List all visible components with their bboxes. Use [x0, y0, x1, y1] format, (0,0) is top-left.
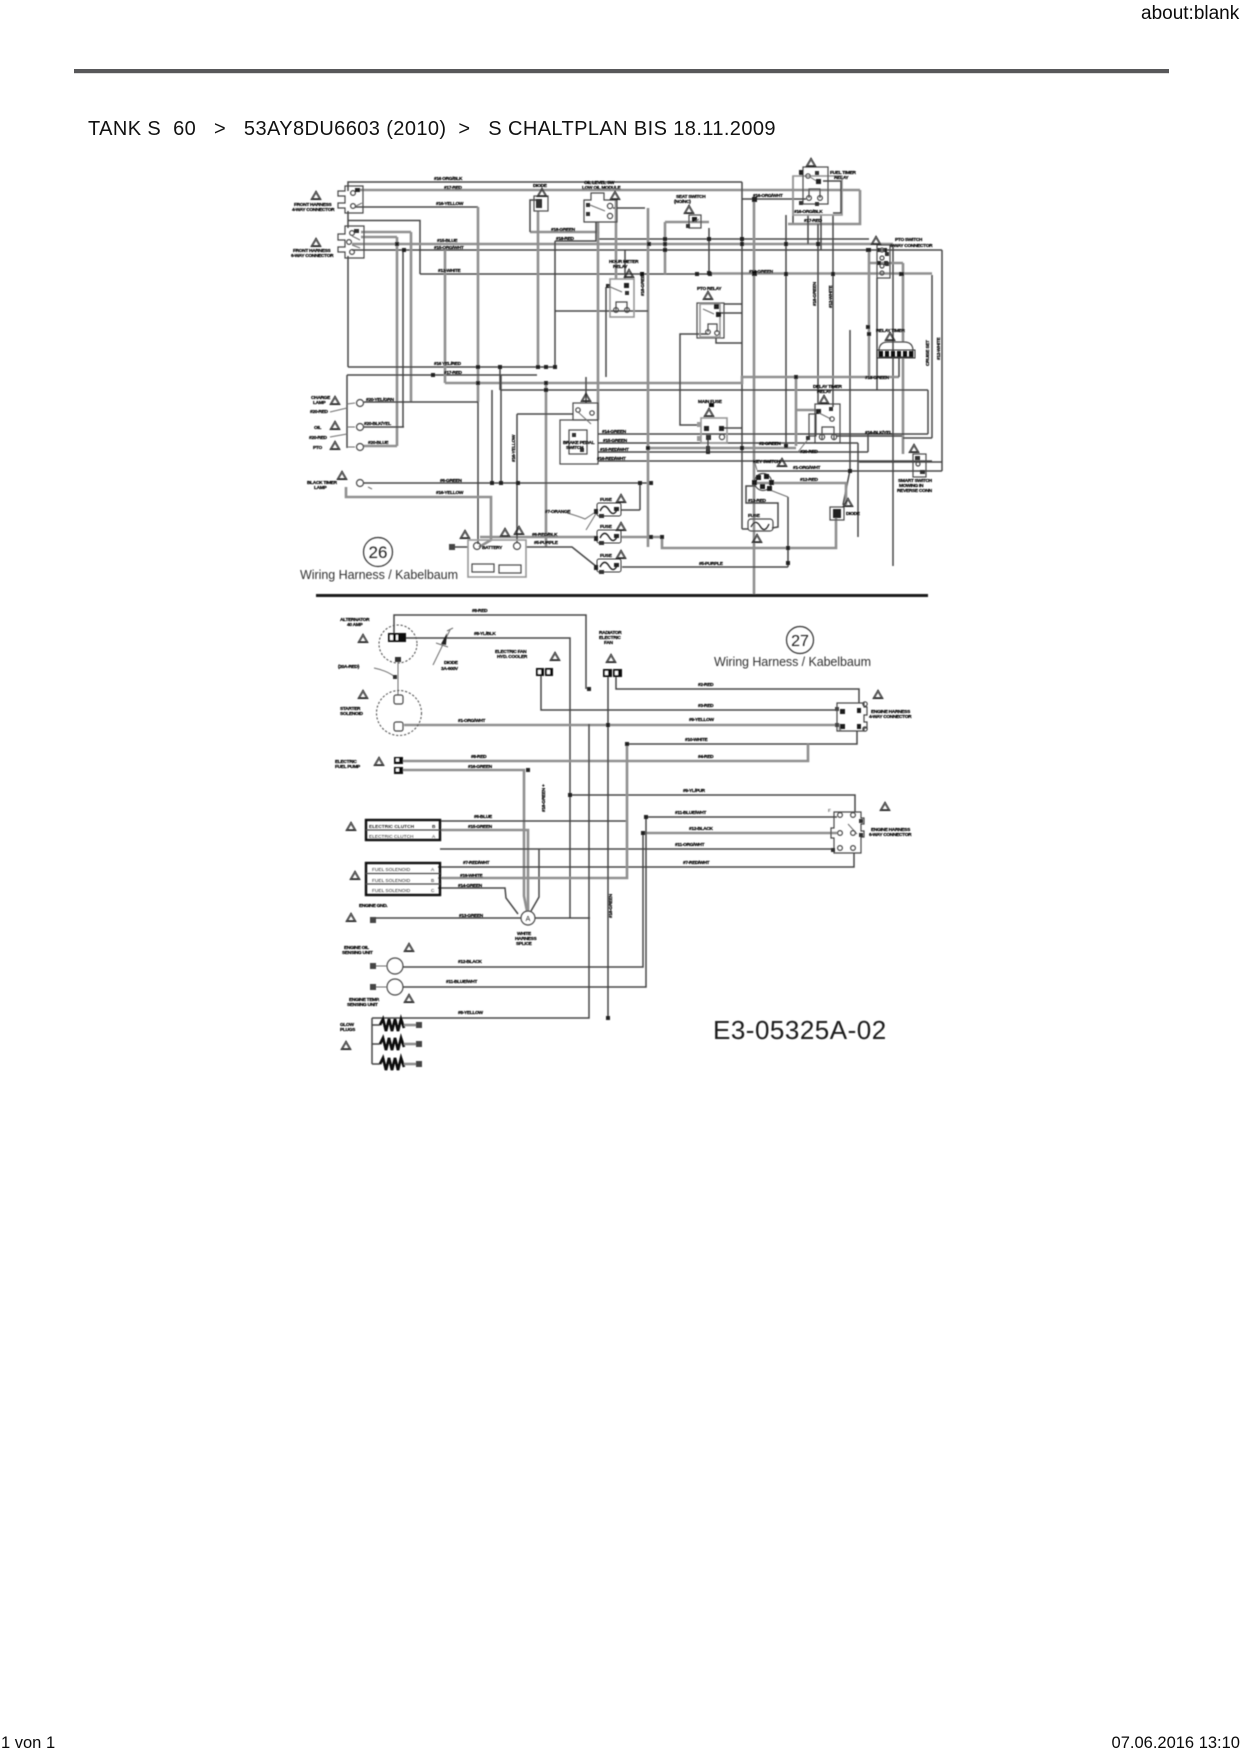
svg-text:#11-ORG/WHT: #11-ORG/WHT [675, 842, 705, 848]
triangle W13 [330, 441, 340, 450]
wire seat sw right [598, 238, 869, 240]
svg-text:KEY SWITCH: KEY SWITCH [753, 459, 781, 465]
triangle W5 [806, 158, 816, 167]
wire radiator fan drop [607, 675, 609, 1018]
wire #16-YELLOW [355, 206, 478, 208]
svg-text:#1-ORG/WHT: #1-ORG/WHT [458, 718, 485, 724]
triangle W11 [330, 396, 340, 405]
wire #17-RED mid [347, 374, 537, 376]
triangle W9 [703, 291, 713, 300]
svg-text:40 AMP: 40 AMP [347, 622, 363, 628]
svg-text:FUEL SOLENOID: FUEL SOLENOID [372, 888, 411, 894]
pto lamp L3 [357, 444, 364, 451]
triangle W19 [514, 526, 524, 535]
wire battery stub [453, 546, 468, 548]
svg-text:#11-BLUE/WHT: #11-BLUE/WHT [675, 810, 706, 816]
svg-text:#13-RED: #13-RED [748, 498, 766, 504]
svg-text:E3-05325A-02: E3-05325A-02 [713, 1015, 887, 1045]
wire riser x445 gray [444, 250, 447, 383]
fuse F3 [594, 559, 621, 574]
svg-text:LAMP: LAMP [313, 400, 326, 406]
junction dots [395, 197, 904, 565]
svg-text:#20-RED: #20-RED [800, 449, 818, 455]
wire #18-GREEN diode [530, 222, 598, 232]
triangle W22 [616, 550, 626, 559]
fuse F1 [594, 503, 621, 518]
alternator G1 [379, 625, 417, 695]
wire diode drop [537, 211, 540, 367]
svg-text:#14-GREEN: #14-GREEN [458, 883, 483, 889]
wire dark mid bus [500, 389, 928, 391]
svg-text:FUSE: FUSE [600, 524, 613, 530]
svg-text:8-WAY CONNECTOR: 8-WAY CONNECTOR [890, 243, 933, 249]
svg-text:27: 27 [791, 633, 809, 650]
black timer lamp L4 [357, 480, 364, 487]
wire splice feed x539 [531, 849, 539, 911]
wire #1-ORG/WHT + #9-YELLOW [404, 725, 840, 731]
lamp stubs [330, 403, 355, 447]
wire riser x786 [785, 215, 787, 446]
svg-text:#15-GREEN: #15-GREEN [468, 824, 493, 830]
svg-text:#1-ORG/WHT: #1-ORG/WHT [793, 465, 820, 471]
svg-text:OIL: OIL [314, 425, 321, 431]
svg-text:FUEL PUMP: FUEL PUMP [335, 764, 361, 770]
svg-text:#9-YL/PUR: #9-YL/PUR [683, 788, 706, 794]
wire #8-RED / #4-RED fuel pump [403, 744, 808, 761]
svg-text:B: B [431, 878, 434, 884]
hour meter M1 [606, 279, 634, 317]
wire conn2 row1 [361, 231, 411, 234]
svg-text:B: B [432, 824, 436, 830]
svg-text:FAN: FAN [604, 640, 614, 646]
wire fuel timer relay left [742, 198, 806, 200]
svg-text:DIODE: DIODE [533, 183, 548, 189]
svg-text:PTO SWITCH: PTO SWITCH [895, 237, 923, 243]
triangle W12 [330, 421, 340, 430]
svg-text:#16-YELLOW: #16-YELLOW [436, 201, 464, 207]
triangle W3 [537, 188, 547, 197]
circle 26 [364, 538, 393, 567]
vertical riser A [396, 237, 399, 446]
svg-text:FUSE: FUSE [748, 513, 761, 519]
svg-text:RELAY: RELAY [613, 264, 628, 270]
svg-text:#15-BLUE: #15-BLUE [437, 238, 458, 244]
triangle W25 [843, 498, 853, 507]
fuel timer relay K1 [793, 167, 842, 215]
wire seat switch link [665, 221, 709, 224]
wire diode to bus [530, 200, 541, 232]
wire x833 extend [832, 215, 834, 284]
connector J2 front harness 6-way [338, 226, 364, 258]
svg-text:SWITCH: SWITCH [566, 445, 584, 451]
wire riser x518 gray [516, 414, 518, 542]
triangle W33 [346, 913, 356, 922]
circle 27 [787, 627, 814, 654]
svg-text:#5-PURPLE: #5-PURPLE [534, 540, 559, 546]
svg-text:#9-YELLOW: #9-YELLOW [689, 717, 715, 723]
wire dome drop gray [902, 358, 905, 454]
wire #7-RED/WHT [438, 853, 854, 867]
seat switch S2 [686, 215, 701, 228]
svg-text:RELAY: RELAY [834, 175, 849, 181]
triangle W31 [346, 822, 356, 831]
wire #16-BLK/YEL [836, 435, 902, 437]
svg-text:#18-GREEN: #18-GREEN [749, 269, 774, 275]
wire right loop top [927, 390, 929, 434]
svg-text:#12-RED: #12-RED [800, 477, 818, 483]
triangle W21 [616, 522, 626, 531]
engine harness 4-way connector J7 [835, 702, 867, 731]
svg-text:#20-YEL/GRN: #20-YEL/GRN [366, 397, 394, 403]
svg-text:#18-GREEN: #18-GREEN [608, 893, 614, 918]
smart switch connector J4 [913, 454, 926, 477]
wire #8-YL/BLK [405, 638, 570, 795]
wire seat sw riser left [664, 222, 667, 274]
triangle W34 [404, 943, 414, 952]
svg-text:#18-GREEN +: #18-GREEN + [541, 784, 547, 812]
triangle W36 [341, 1041, 351, 1050]
wire hour meter feed 2 [624, 250, 626, 279]
triangle W17 [460, 530, 470, 539]
wire #12-WHITE bus [420, 273, 710, 275]
svg-text:ELECTRIC CLUTCH: ELECTRIC CLUTCH [369, 834, 414, 840]
fuel solenoid SV1 [366, 863, 440, 895]
svg-text:BATTERY: BATTERY [482, 545, 503, 551]
triangle W18 [500, 528, 510, 537]
svg-text:#15-ORG/WHT: #15-ORG/WHT [434, 245, 464, 251]
triangle W27 [337, 471, 347, 480]
brake wire 3 [598, 451, 868, 453]
triangle W2 [311, 238, 321, 247]
wire diode2 down-left gray [662, 518, 836, 548]
wire hour meter bottom [555, 310, 648, 312]
wire #17-RED relay [788, 190, 860, 224]
triangle W15 [819, 395, 829, 404]
wire right loop [903, 437, 932, 439]
wire hour meter feeds [615, 199, 618, 279]
svg-text:LAMP: LAMP [314, 485, 327, 491]
wire pto relay feeds [721, 304, 742, 313]
svg-text:#2-GREEN: #2-GREEN [759, 441, 781, 447]
triangle W37 [606, 654, 616, 663]
svg-text:#8-YL/BLK: #8-YL/BLK [474, 631, 496, 637]
wire 20A-RED diag [374, 668, 395, 677]
wire #2-RED [616, 675, 859, 703]
svg-text:#18-GREEN: #18-GREEN [812, 281, 818, 306]
triangle W23 [777, 458, 787, 467]
wire riser x833 [832, 284, 834, 407]
svg-text:DIODE: DIODE [444, 660, 459, 666]
wire #12-RED [754, 483, 846, 505]
electric clutch CL1 [366, 820, 440, 840]
svg-text:#4-RED: #4-RED [698, 754, 714, 760]
wire ign to fuse [746, 486, 778, 528]
starter solenoid M2 [377, 691, 422, 736]
svg-text:4-WAY CONNECTOR: 4-WAY CONNECTOR [869, 714, 912, 720]
wire #1-ORG/WHT [757, 470, 942, 472]
svg-text:DIODE: DIODE [846, 511, 861, 517]
svg-text:HYD. COOLER: HYD. COOLER [497, 654, 528, 660]
wire riser x478 lower [477, 402, 479, 544]
svg-text:LOW OIL MODULE: LOW OIL MODULE [582, 185, 621, 191]
svg-text:RELAY TIMER: RELAY TIMER [876, 328, 906, 334]
svg-text:#10-WHITE: #10-WHITE [685, 737, 708, 743]
wire #3-RED [541, 675, 837, 710]
glow plug R3 terminal [404, 1061, 422, 1067]
wire #17-RED top [355, 189, 860, 192]
triangle W1 [311, 191, 321, 200]
svg-text:1 von 1: 1 von 1 [1, 1734, 55, 1752]
engine ground GND [370, 917, 376, 923]
lamp L4 stub [368, 487, 372, 489]
wire splice riser x571 [569, 795, 571, 918]
triangle W4 [610, 191, 620, 200]
engine temp sensing unit U2 [370, 979, 403, 995]
wire right loop bottom [859, 461, 942, 463]
electric fuel pump P1 [394, 757, 403, 774]
triangle W20 [616, 494, 626, 503]
svg-text:#17-RED: #17-RED [804, 218, 822, 224]
wire corner x500 [499, 367, 501, 390]
wire key sw diagonal [770, 490, 788, 497]
svg-text:TANK S 60 > 53AY8DU6603 (: TANK S 60 > 53AY8DU6603 (2010) > S CHALT… [88, 118, 776, 140]
wire #16-ORG/BLK relay [792, 176, 794, 224]
oil lamp L2 [357, 424, 364, 431]
svg-text:F: F [828, 808, 831, 814]
triangle W28 [358, 634, 368, 643]
lamp3 wire [363, 445, 397, 448]
svg-text:#18-GREEN: #18-GREEN [551, 227, 576, 233]
svg-text:PLUGS: PLUGS [340, 1027, 356, 1033]
wire relay drop 1 [741, 182, 743, 529]
svg-text:07.06.2016 13:10: 07.06.2016 13:10 [1112, 1734, 1240, 1752]
svg-text:#16-ORG/WHT: #16-ORG/WHT [753, 193, 783, 199]
svg-text:#6-RED/BLK: #6-RED/BLK [532, 532, 558, 538]
svg-text:#15-RED/WHT: #15-RED/WHT [600, 447, 629, 453]
triangle W10 [885, 332, 895, 341]
wire riser x850 [843, 330, 850, 505]
svg-text:MAIN FUSE: MAIN FUSE [698, 399, 723, 405]
svg-text:#19-WHITE: #19-WHITE [460, 873, 483, 879]
wire oil switch drop x586 [585, 377, 587, 403]
brake wire 2 [598, 442, 858, 444]
svg-text:3A-600V: 3A-600V [441, 666, 459, 672]
wire #13-GREEN [375, 917, 521, 919]
diode D2 [830, 507, 844, 520]
glow plug R3 [380, 1058, 404, 1070]
diode D3 symbol [433, 628, 453, 665]
oil pressure switch S1 [584, 193, 617, 222]
connector J1 front harness 4-way [338, 186, 363, 213]
svg-text:#17-RED: #17-RED [444, 185, 462, 191]
svg-text:#8-RED: #8-RED [472, 608, 488, 614]
svg-text:Wiring Harness / Kabelbaum: Wiring Harness / Kabelbaum [300, 568, 458, 582]
svg-text:#16-BLK/YEL: #16-BLK/YEL [865, 430, 892, 436]
svg-text:#12-WHITE: #12-WHITE [828, 285, 834, 308]
svg-text:#16 ORG/BLK: #16 ORG/BLK [434, 176, 463, 182]
triangle W39 [873, 690, 883, 699]
svg-text:#20-BLUE: #20-BLUE [368, 440, 389, 446]
wire conn1 bottom loop [348, 211, 420, 274]
wire #6-BLUE [440, 820, 627, 822]
wire #12-BLACK sensor [403, 833, 643, 967]
wire #5-PURPLE diag [526, 547, 597, 567]
wire riser x645 [647, 208, 650, 547]
svg-text:FUEL SOLENOID: FUEL SOLENOID [372, 878, 411, 884]
glow plug R1 [380, 1019, 404, 1031]
wire x788 riser [787, 497, 789, 567]
wire fuse1 right [621, 509, 640, 511]
triangle W14 [704, 408, 714, 417]
wire #16-YELLOW battery [346, 487, 491, 547]
triangle W26 [909, 444, 919, 453]
svg-text:REVERSE CONN: REVERSE CONN [897, 488, 933, 494]
svg-text:#7-RED/WHT: #7-RED/WHT [463, 860, 490, 866]
wire riser x546 gray [545, 383, 548, 547]
wire oil module drop [613, 207, 645, 209]
svg-text:#12-WHITE: #12-WHITE [438, 268, 461, 274]
svg-text:#11-BLUE/WHT: #11-BLUE/WHT [446, 979, 477, 985]
lamp bus left [346, 375, 348, 448]
wire riser x869 [868, 250, 871, 377]
svg-text:#20-RED: #20-RED [310, 409, 328, 415]
svg-text:#18-GREEN: #18-GREEN [640, 271, 646, 296]
svg-text:#12-WHITE: #12-WHITE [936, 337, 942, 360]
wire brake sw left [517, 413, 573, 415]
svg-text:#14-GREEN: #14-GREEN [602, 429, 627, 435]
svg-text:#6-GREEN: #6-GREEN [440, 478, 462, 484]
pto switch connector J3 [877, 245, 890, 278]
wire #15-ORG/WHT bus [352, 249, 942, 251]
delay timer relay K4 [809, 404, 840, 443]
svg-text:PTO RELAY: PTO RELAY [697, 286, 722, 292]
main fuse F0 [697, 403, 742, 452]
svg-text:ELECTRIC CLUTCH: ELECTRIC CLUTCH [369, 824, 415, 830]
svg-text:26: 26 [369, 543, 388, 562]
wire #12-BLACK connector [643, 832, 837, 835]
wire riser x796 gray [796, 377, 816, 446]
separator line [316, 594, 928, 597]
glow plug R2 terminal [404, 1041, 422, 1047]
wire #18-RED [555, 222, 596, 367]
svg-text:#13-GREEN: #13-GREEN [459, 913, 484, 919]
svg-text:4-WAY CONNECTOR: 4-WAY CONNECTOR [292, 207, 335, 213]
wire riser x501 [500, 375, 502, 483]
svg-text:C: C [431, 888, 435, 894]
wire #18-GREEN relay timer [898, 357, 900, 377]
svg-text:#18-RED: #18-RED [556, 236, 574, 242]
wire conn2 row2 [361, 236, 397, 239]
wire #8-RED alternator top [394, 615, 586, 689]
wire pto conn gray out [869, 262, 903, 265]
brake wire 4 [598, 460, 932, 462]
wire riser x902 [902, 263, 905, 342]
svg-text:#16-ORG/BLK: #16-ORG/BLK [794, 209, 823, 215]
triangle W30 [374, 757, 384, 766]
wire conn2 bottom drop [347, 256, 349, 367]
junction dots d2 [526, 687, 648, 1020]
wire riser x935 [931, 275, 933, 438]
header rule [74, 69, 1169, 73]
wire riser x598 gray [597, 232, 600, 420]
lamp2 wire [363, 426, 404, 428]
svg-text:#3-RED: #3-RED [698, 703, 714, 709]
triangle W8 [624, 269, 634, 278]
triangle W38 [550, 652, 560, 661]
triangle W7 [871, 236, 881, 245]
wire x868 drop [867, 434, 869, 452]
diode D1 [534, 196, 548, 211]
glow plugs bus [372, 1018, 380, 1064]
wire main fuse left [680, 334, 708, 425]
svg-text:6-WAY CONNECTOR: 6-WAY CONNECTOR [869, 832, 912, 838]
svg-text:FUSE: FUSE [600, 497, 613, 503]
svg-text:A: A [526, 916, 531, 923]
engine harness 6-way connector J8 [828, 808, 864, 853]
svg-text:#16-YELLOW: #16-YELLOW [511, 434, 517, 462]
svg-text:CRUISE SET: CRUISE SET [925, 340, 931, 366]
svg-text:#7-ORANGE: #7-ORANGE [545, 509, 571, 515]
wire x858 drop [857, 443, 859, 537]
wire pto relay bottom [716, 336, 742, 343]
wire #11-ORG/WHT [440, 848, 832, 850]
svg-text:#16 YEL/RED: #16 YEL/RED [434, 361, 462, 367]
wire #19-WHITE [438, 744, 627, 878]
wire #11-BLUE/WHT connector [646, 816, 837, 818]
lamp1 wire [364, 401, 478, 403]
svg-text:SENSING UNIT: SENSING UNIT [342, 950, 373, 956]
svg-text:Wiring Harness / Kabelbaum: Wiring Harness / Kabelbaum [714, 655, 871, 669]
svg-text:#15-GREEN: #15-GREEN [603, 438, 628, 444]
wire bus #16 ORG/BLK top [348, 182, 742, 191]
svg-text:#20-RED: #20-RED [309, 435, 327, 441]
glow plug R2 [380, 1038, 404, 1050]
wire #20-RED diagonal [798, 438, 809, 452]
vertical riser B [402, 250, 404, 427]
wire connector drop x880 [876, 278, 878, 390]
svg-text:#16-YELLOW: #16-YELLOW [436, 490, 464, 496]
hyd cooler fan connector J6 [536, 668, 553, 676]
wire #10-WHITE [627, 731, 857, 744]
vertical riser D gray [477, 207, 480, 402]
svg-text:#5-PURPLE: #5-PURPLE [699, 561, 724, 567]
triangle W16 [581, 393, 591, 402]
svg-text:#18-GREEN: #18-GREEN [865, 375, 890, 381]
wire #7-ORANGE diag [567, 511, 597, 530]
svg-text:#16-RED/WHT: #16-RED/WHT [597, 456, 626, 462]
svg-text:6-WAY CONNECTOR: 6-WAY CONNECTOR [291, 253, 334, 259]
triangle W35 [404, 994, 414, 1003]
wire #9-YL/PUR [570, 795, 855, 812]
wire riser x943 [941, 250, 943, 471]
svg-text:(NO/NC): (NO/NC) [674, 199, 691, 205]
wire fuse3 to x788 [622, 566, 788, 568]
wire fuel relay pin drops [808, 215, 821, 250]
wire bus 274 east gray [709, 272, 932, 275]
triangle W6 [684, 205, 694, 214]
charge lamp L1 [357, 400, 364, 407]
svg-text:FUEL SOLENOID: FUEL SOLENOID [372, 867, 411, 873]
svg-text:#20-BLK/YEL: #20-BLK/YEL [364, 421, 391, 427]
svg-text:SENSING UNIT: SENSING UNIT [347, 1002, 378, 1008]
ignition switch S4 [752, 460, 774, 491]
svg-text:#8-RED: #8-RED [471, 754, 487, 760]
battery B1 [449, 540, 526, 577]
svg-text:SOLENOID: SOLENOID [340, 711, 363, 717]
brake switch wires right [598, 433, 928, 435]
wire riser x818 [817, 224, 819, 404]
wire hour meter pin drop [605, 287, 607, 377]
